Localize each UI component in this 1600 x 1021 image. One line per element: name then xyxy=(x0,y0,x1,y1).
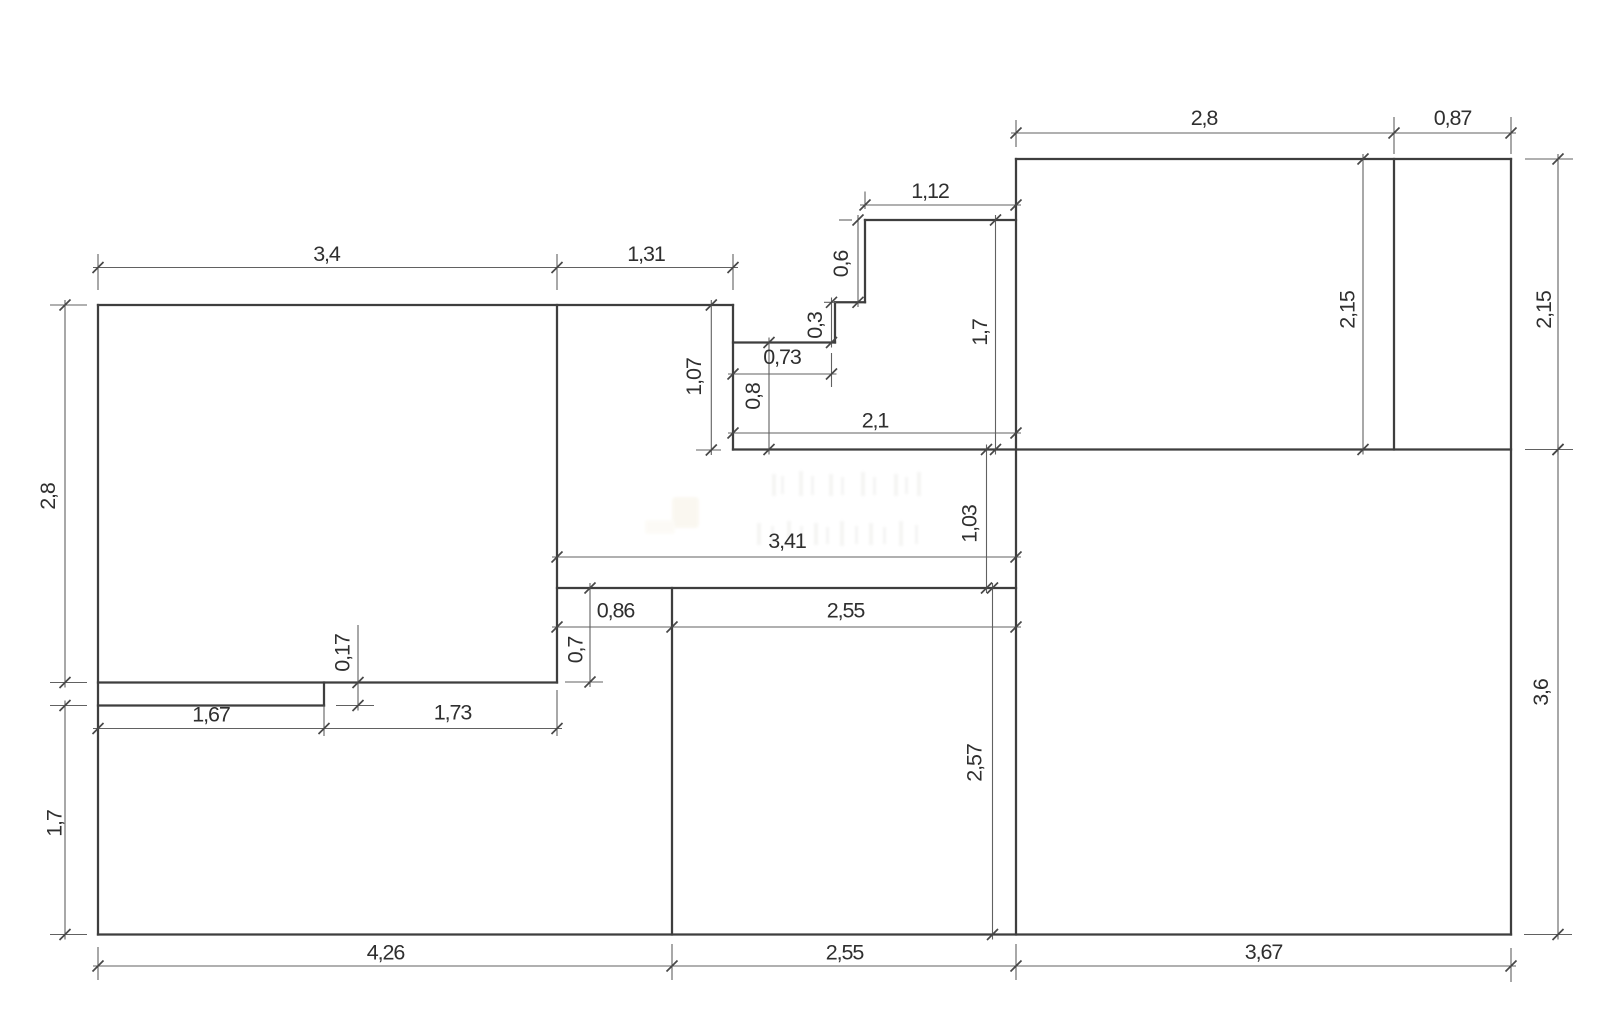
extension x=1511 top xyxy=(1510,117,1512,154)
dim line 0,3 xyxy=(831,298,833,348)
tick 2,1 right xyxy=(1011,428,1022,439)
wall bottom outer xyxy=(98,933,1511,935)
tick 0,7 bottom xyxy=(585,677,596,688)
dim line 3,6 xyxy=(1557,445,1559,940)
tick 0,3 top xyxy=(826,297,837,308)
dim line 1,7 middle xyxy=(995,215,997,455)
tick 3,41 right xyxy=(1011,552,1022,563)
tick 3,4/1,31 boundary xyxy=(552,262,563,273)
tick 2,8/0,87 boundary xyxy=(1389,128,1400,139)
wall step top y=220 xyxy=(865,219,1016,221)
tick 2,55 mid right xyxy=(1011,622,1022,633)
svg-text:0,86: 0,86 xyxy=(597,599,636,623)
svg-text:1,07: 1,07 xyxy=(682,358,706,396)
svg-text:2,15: 2,15 xyxy=(1532,290,1556,329)
svg-text:3,67: 3,67 xyxy=(1245,940,1283,964)
tick 0,8 top xyxy=(764,337,775,348)
extension y=450 for 1,07 xyxy=(696,449,721,451)
tick 2,57 top xyxy=(987,583,998,594)
wall vertical x=672 xyxy=(671,588,673,935)
wall step vertical x=865 xyxy=(864,220,866,302)
tick 0,17 bottom xyxy=(353,700,364,711)
svg-text:3,4: 3,4 xyxy=(313,242,341,266)
tick 1,7 middle bottom xyxy=(990,444,1001,455)
svg-text:0,6: 0,6 xyxy=(829,250,853,278)
tick 2,15 inner top xyxy=(1358,154,1369,165)
tick 2,15 right top xyxy=(1553,154,1564,165)
wall horizontal y=588 xyxy=(557,587,1016,589)
wall vertical x=1016 xyxy=(1015,159,1017,935)
tick 2,8 top left xyxy=(1011,128,1022,139)
dim line 1,67/1,73 xyxy=(93,728,562,730)
tick 1,12 right xyxy=(1011,200,1022,211)
tick 1,7 left bottom xyxy=(60,929,71,940)
extension y=705 for 0,17 xyxy=(336,705,374,707)
extension x=733 for 1,31 xyxy=(732,254,734,290)
tick 0,3 bottom xyxy=(826,337,837,348)
dim line 2,57 xyxy=(992,583,994,940)
dim line 1,07 xyxy=(710,300,712,455)
extension y=220 for 0,6 xyxy=(839,219,852,221)
tick 0,7 top xyxy=(585,583,596,594)
wall top-right room top xyxy=(1016,158,1511,160)
tick 1,73 right xyxy=(552,723,563,734)
wall step vertical x=324 xyxy=(323,683,325,706)
dim line 2,8/0,87 top xyxy=(1011,132,1516,134)
tick 1,07 bottom xyxy=(706,445,717,456)
svg-text:0,17: 0,17 xyxy=(331,634,355,672)
tick 0,6 bottom xyxy=(853,297,864,308)
extension x=557 for 3,4 xyxy=(556,254,558,290)
extension x=1016 bottom xyxy=(1015,944,1017,980)
wall left outer xyxy=(97,305,99,935)
svg-text:2,8: 2,8 xyxy=(36,482,60,510)
tick 0,86 left xyxy=(552,622,563,633)
tick 3,6 bottom xyxy=(1553,929,1564,940)
wall vertical x=733 xyxy=(732,305,734,450)
dim line 0,7 xyxy=(589,583,591,687)
dim line 2,1 xyxy=(728,432,1021,434)
extension y=682 left xyxy=(50,682,87,684)
tick 3,6 top xyxy=(1553,444,1564,455)
wall horizontal y=449 xyxy=(733,448,1511,450)
extension x=324 for 1,67 xyxy=(323,706,325,737)
tick 0,87 right xyxy=(1506,128,1517,139)
tick 2,8 left bottom xyxy=(60,677,71,688)
svg-text:1,12: 1,12 xyxy=(911,179,949,203)
extension x=557 for 1,73 xyxy=(556,690,558,736)
extension y=449 right xyxy=(1525,449,1573,451)
tick 1,03 top xyxy=(981,444,992,455)
tick 0,73 left xyxy=(728,369,739,380)
svg-text:0,8: 0,8 xyxy=(741,382,765,410)
dim line 0,17 xyxy=(357,625,359,711)
tick 4,26 left xyxy=(93,961,104,972)
tick 1,03 bottom xyxy=(981,583,992,594)
svg-text:2,8: 2,8 xyxy=(1191,106,1219,130)
tick 3,67 right xyxy=(1506,961,1517,972)
tick 1,31 right xyxy=(728,262,739,273)
svg-text:1,31: 1,31 xyxy=(627,242,665,266)
tick 1,12 left xyxy=(860,200,871,211)
wall horizontal y=682 xyxy=(98,681,557,683)
tick 1,7 left top xyxy=(60,700,71,711)
svg-text:2,55: 2,55 xyxy=(826,941,865,965)
tick 1,7 middle top xyxy=(990,215,1001,226)
faint watermark remnants xyxy=(645,471,921,546)
svg-text:3,41: 3,41 xyxy=(768,529,806,553)
svg-text:1,7: 1,7 xyxy=(43,810,67,837)
dim line 3,4/1,31 xyxy=(93,267,738,269)
tick 1,07 top xyxy=(706,300,717,311)
dim line 0,73 xyxy=(728,373,837,375)
extension x=831 for 0,73 xyxy=(831,353,833,387)
wall horizontal y=705 xyxy=(98,704,324,706)
wall step bottom y=342 xyxy=(733,341,835,343)
tick 3,41 left xyxy=(552,552,563,563)
svg-text:2,55: 2,55 xyxy=(827,599,866,623)
wall step middle y=302 xyxy=(835,301,865,303)
tick 0,86/2,55 boundary xyxy=(667,622,678,633)
extension y=705 left xyxy=(50,705,87,707)
tick 0,6 top xyxy=(853,215,864,226)
extension y=305 left xyxy=(50,304,87,306)
tick 2,15 right bottom xyxy=(1553,444,1564,455)
dim line 3,41 xyxy=(552,556,1021,558)
svg-text:1,67: 1,67 xyxy=(192,703,230,727)
dim line 0,8 xyxy=(768,338,770,455)
extension y=302 for 0,3 xyxy=(824,301,836,303)
wall right outer xyxy=(1510,159,1512,935)
tick 2,1 left xyxy=(728,428,739,439)
dim line 2,15 right xyxy=(1557,154,1559,455)
tick 0,73 right xyxy=(826,369,837,380)
extension x=98 bottom xyxy=(97,947,99,980)
svg-text:1,03: 1,03 xyxy=(958,504,982,543)
svg-text:4,26: 4,26 xyxy=(367,941,406,965)
extension y=934 right xyxy=(1524,934,1572,936)
extension x=98 for 3,4 xyxy=(97,254,99,290)
tick 4,26/2,55 boundary xyxy=(667,961,678,972)
extension x=865 for 1,12 xyxy=(864,192,866,210)
svg-text:2,1: 2,1 xyxy=(862,409,889,433)
tick 3,4 left xyxy=(93,262,104,273)
svg-text:0,7: 0,7 xyxy=(564,637,588,664)
wall internal x=1394 xyxy=(1393,159,1395,450)
svg-text:2,57: 2,57 xyxy=(963,744,987,782)
dim line 2,15 inner xyxy=(1362,154,1364,455)
wall vertical x=557 xyxy=(556,305,558,683)
wall top-left room top xyxy=(98,304,733,306)
dim line 0,6 xyxy=(857,215,859,307)
extension x=1016 top xyxy=(1015,120,1017,147)
extension y=682 for 0,7 xyxy=(565,681,603,683)
dim line 1,12 xyxy=(860,204,1021,206)
dim line 2,8 left xyxy=(64,300,66,688)
extension y=159 right xyxy=(1525,158,1573,160)
svg-text:3,6: 3,6 xyxy=(1529,678,1553,706)
extension x=1511 bottom xyxy=(1510,948,1512,982)
svg-text:0,3: 0,3 xyxy=(803,311,827,339)
tick 0,17 top xyxy=(353,677,364,688)
dim line 0,86/2,55 xyxy=(552,626,1021,628)
dim line 4,26/2,55/3,67 bottom xyxy=(93,965,1516,967)
svg-text:0,87: 0,87 xyxy=(1434,106,1472,130)
wall step vertical x=835 xyxy=(834,302,836,342)
tick 1,67/1,73 boundary xyxy=(319,723,330,734)
extension x=672 bottom xyxy=(671,944,673,980)
tick 1,67 left xyxy=(93,723,104,734)
tick 0,8 bottom xyxy=(764,444,775,455)
svg-text:2,15: 2,15 xyxy=(1336,290,1360,329)
extension y=934 left xyxy=(50,934,87,936)
tick 2,8 left top xyxy=(60,300,71,311)
tick 2,55/3,67 boundary xyxy=(1011,961,1022,972)
dim line 1,03 xyxy=(986,445,988,594)
tick 2,15 inner bottom xyxy=(1358,444,1369,455)
tick 2,57 bottom xyxy=(987,929,998,940)
svg-text:1,73: 1,73 xyxy=(434,701,473,725)
svg-text:1,7: 1,7 xyxy=(968,319,992,346)
svg-text:0,73: 0,73 xyxy=(763,345,802,369)
dim line 1,7 left xyxy=(64,701,66,940)
extension x=1394 top xyxy=(1393,117,1395,154)
